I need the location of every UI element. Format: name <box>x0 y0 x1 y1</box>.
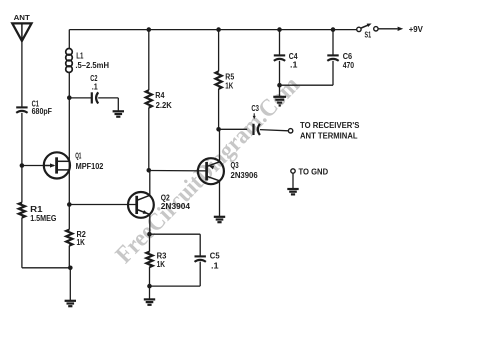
svg-text:2.2K: 2.2K <box>156 100 173 110</box>
svg-text:2N3906: 2N3906 <box>231 170 258 180</box>
ground (R3) <box>144 298 155 300</box>
node: R2 / ground-lead junction <box>68 266 73 271</box>
wire: Q1 gate lead <box>22 165 50 167</box>
svg-text:Q1: Q1 <box>75 150 81 160</box>
svg-text:ANT TERMINAL: ANT TERMINAL <box>300 131 358 141</box>
capacitor C1 680pF <box>16 99 52 116</box>
resistor R4 2.2K <box>146 90 173 110</box>
capacitor C2 .1 <box>90 73 98 103</box>
wire: Q2 base <box>69 204 136 206</box>
node: R3 bottom / C5 bottom <box>147 284 152 289</box>
svg-text:1K: 1K <box>225 80 234 90</box>
wire: Q2 emitter drop <box>149 214 151 234</box>
svg-text:1.5MEG: 1.5MEG <box>30 213 56 223</box>
wire: node to Q3 base <box>149 170 206 172</box>
node C: R5 / C3 / Q3 emitter <box>216 127 221 132</box>
wire: antenna to C1 <box>21 41 23 108</box>
wire: rail to C4 <box>279 30 281 56</box>
wire: Q3 collector to ground <box>219 181 221 217</box>
antenna ANT <box>12 15 31 41</box>
node B: R4 / Q2 collector / Q3 base <box>147 168 152 173</box>
svg-text:680pF: 680pF <box>32 106 52 116</box>
switch S1 <box>357 24 378 40</box>
wire: R5 to C3 node <box>218 89 220 129</box>
svg-text:1K: 1K <box>157 259 166 269</box>
node: Q1 source / Q2 base junction <box>67 202 72 207</box>
ground (chassis reference) <box>287 188 298 190</box>
ground (C2) <box>113 110 124 112</box>
wire: junction to ground <box>69 268 71 300</box>
resistor R2 1K <box>66 229 86 247</box>
resistor R3 1K <box>146 251 166 269</box>
wire: Q3 emitter riser <box>219 129 221 162</box>
wire: R2 to bottom rail <box>68 246 70 268</box>
capacitor C6 470 <box>327 51 354 70</box>
node: top rail / C4 <box>277 27 282 32</box>
inductor L1 .5-2.5mH <box>66 49 109 73</box>
wire: Q2 collector riser <box>149 170 151 195</box>
capacitor C3 <box>251 103 260 135</box>
wire: node to R2 <box>68 205 70 230</box>
node A: antenna / Q1 gate junction <box>20 163 25 168</box>
ground (Q3) <box>214 216 225 218</box>
svg-text:2N3904: 2N3904 <box>161 201 190 211</box>
wire: bypass return rail <box>280 84 334 86</box>
capacitor C5 .1 <box>195 251 220 271</box>
wire: gnd terminal lead <box>292 173 294 188</box>
svg-text:C3: C3 <box>251 103 259 113</box>
wire: Q1 drain column <box>68 98 70 205</box>
svg-text:TO GND: TO GND <box>299 167 329 177</box>
terminal: to gnd <box>291 167 328 177</box>
wire: R4 to collector node <box>148 108 150 171</box>
ground (C4/C6) <box>273 96 286 98</box>
wire: L1 to drain node <box>68 73 70 98</box>
svg-text:.1: .1 <box>290 60 298 70</box>
wire: bottom rail <box>22 267 70 269</box>
wire: C2 to ground corner <box>98 97 118 99</box>
node: C4 bottom / ground <box>277 83 282 88</box>
wire: C1 to R1 <box>21 113 23 203</box>
supply +9V arrow <box>378 24 423 34</box>
svg-text:1K: 1K <box>77 237 86 247</box>
svg-text:470: 470 <box>343 60 355 70</box>
ground (bottom left) <box>65 300 76 302</box>
svg-text:+9V: +9V <box>409 24 423 34</box>
transistor Q3 2N3906 <box>198 158 258 184</box>
capacitor C4 .1 <box>274 51 298 70</box>
svg-text:C5: C5 <box>210 251 220 261</box>
svg-text:.1: .1 <box>211 260 219 270</box>
svg-text:TO RECEIVER'S: TO RECEIVER'S <box>300 120 360 130</box>
svg-text:.5–2.5mH: .5–2.5mH <box>75 60 109 70</box>
wire: bottom node to ground <box>149 286 151 299</box>
resistor R1 1.5MEG <box>19 203 57 223</box>
wire: C3 to receiver terminal <box>260 130 288 131</box>
wire: drain node to C2 <box>69 97 92 99</box>
wire: bottom node to C5 <box>150 285 201 287</box>
node: top rail / R5 <box>216 27 221 32</box>
wire: node to C3 <box>219 128 248 130</box>
transistor Q2 2N3904 <box>128 192 190 218</box>
wire: R3 to bottom node <box>149 267 151 286</box>
svg-text:Q3: Q3 <box>231 160 239 170</box>
wire: R1 to bottom rail <box>21 218 23 268</box>
terminal: to receiver's ant <box>288 120 359 141</box>
wire: rail to R5 <box>218 30 220 72</box>
wire: rail to C6 <box>332 30 334 56</box>
wire: rail to R4 <box>148 30 150 91</box>
node: top rail / R4 <box>147 27 152 32</box>
node: Q2 emitter / R3 / C5 junction <box>147 232 152 237</box>
node: top rail / C6 <box>331 27 336 32</box>
node: L1 / C2 / Q1 drain junction <box>67 95 72 100</box>
svg-text:R4: R4 <box>155 90 164 100</box>
wire: emitter node to C5 top <box>150 233 201 235</box>
svg-text:ANT: ANT <box>14 15 31 22</box>
wire: +9V top rail <box>69 29 356 31</box>
svg-text:S1: S1 <box>365 29 372 39</box>
svg-text:MPF102: MPF102 <box>76 161 104 171</box>
transistor Q1 MPF102 (JFET) <box>44 150 104 178</box>
wire: C4 to bottom node <box>279 61 281 85</box>
svg-text:.1: .1 <box>92 81 98 91</box>
wire: C4 node to ground <box>279 85 281 96</box>
wire: node to R3 <box>149 234 151 251</box>
resistor R5 1K <box>216 71 235 90</box>
wire: rail to L1 <box>68 30 70 49</box>
